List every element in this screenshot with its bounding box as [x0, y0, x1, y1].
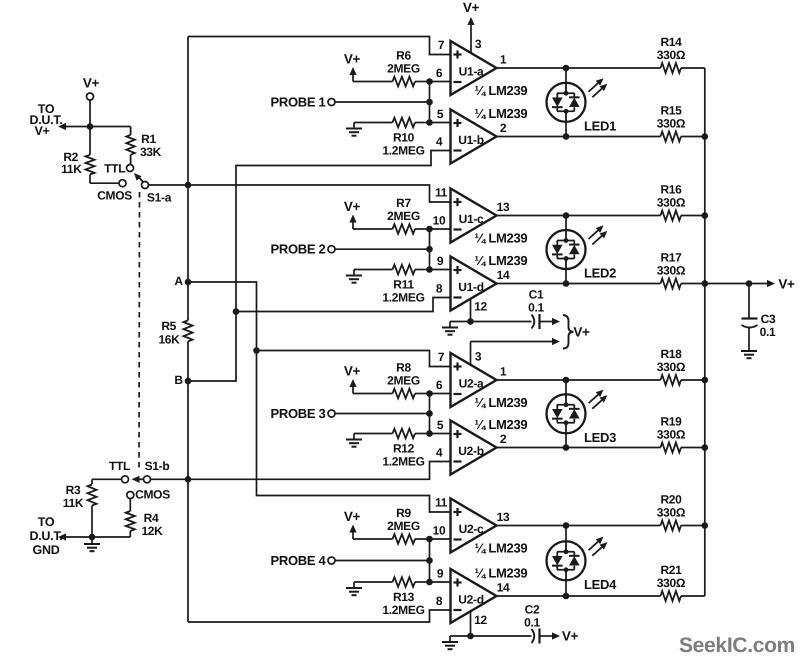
wire left bus upper segment: [187, 37, 189, 321]
svg-text:R17: R17: [660, 251, 682, 265]
capacitor C2 0.1: [524, 603, 552, 644]
resistor R4: [126, 511, 163, 538]
svg-text:TO: TO: [38, 515, 55, 529]
svg-text:2: 2: [500, 432, 507, 446]
label S1-b: [145, 459, 170, 473]
svg-text:7: 7: [438, 38, 445, 52]
svg-text:R10: R10: [393, 131, 415, 145]
svg-text:R7: R7: [396, 196, 411, 210]
svg-text:U2-a: U2-a: [459, 377, 484, 391]
wire U1-d output to right bus: [681, 283, 705, 285]
node U1-b plus junction: [426, 119, 433, 126]
svg-text:B: B: [174, 373, 183, 387]
svg-text:¼ LM239: ¼ LM239: [475, 253, 528, 268]
svg-text:U1-a: U1-a: [459, 65, 484, 79]
wire V+ output row: [705, 277, 795, 292]
power rail V+ (top left): [83, 76, 100, 127]
power V+ for R9: [344, 509, 361, 539]
resistor R6 2MEG: [353, 49, 430, 87]
input PROBE 1: [271, 95, 430, 110]
wire input junction column stage 3: [429, 394, 431, 434]
svg-text:1: 1: [500, 365, 507, 379]
svg-text:6: 6: [436, 66, 443, 80]
svg-text:330Ω: 330Ω: [657, 196, 686, 210]
svg-text:330Ω: 330Ω: [657, 428, 686, 442]
wire U2-d output row: [497, 595, 661, 597]
wire to U1-a minus input: [430, 81, 451, 83]
node TO D.U.T. V+ junction: [87, 123, 94, 130]
wire to U1-c minus input: [430, 228, 451, 230]
op-amp comparator U1-c: [433, 186, 528, 246]
svg-text:CMOS: CMOS: [135, 488, 170, 502]
svg-text:1.2MEG: 1.2MEG: [382, 144, 424, 158]
svg-text:U1-c: U1-c: [459, 212, 484, 226]
svg-text:R6: R6: [396, 49, 411, 63]
svg-text:330Ω: 330Ω: [657, 506, 686, 520]
resistor R1: [126, 127, 161, 165]
svg-text:33K: 33K: [140, 145, 162, 159]
resistor R17 330: [657, 251, 686, 289]
svg-text:¼ LM239: ¼ LM239: [475, 106, 528, 121]
svg-text:V+: V+: [34, 124, 49, 138]
LED LED2 (bicolor): [547, 212, 617, 287]
switch S1-b CMOS contact: [127, 492, 134, 499]
svg-text:R9: R9: [396, 506, 411, 520]
ground (R13): [346, 582, 362, 595]
svg-text:2: 2: [500, 121, 507, 135]
power V+ pin 3 of U1-a: [463, 0, 482, 53]
svg-text:PROBE 4: PROBE 4: [271, 553, 327, 568]
wire R4 to gnd rail: [66, 531, 130, 537]
node C2 junction: [467, 633, 474, 640]
resistor R12 1.2MEG: [354, 429, 430, 469]
svg-text:LED3: LED3: [584, 430, 616, 445]
node right bus at R20 row: [702, 522, 709, 529]
wire C3 to V+ row: [748, 284, 750, 318]
resistor R13 1.2MEG: [354, 577, 430, 617]
wire U1-b output to right bus: [681, 136, 705, 138]
label S1-a: [147, 191, 172, 205]
svg-text:GND: GND: [33, 543, 60, 557]
node S1-b junction on left bus: [185, 476, 192, 483]
resistor R15 330: [657, 104, 686, 142]
svg-text:4: 4: [436, 135, 443, 149]
svg-text:9: 9: [437, 567, 444, 581]
wire arrow TO D.U.T. GND: [58, 533, 66, 540]
svg-text:R14: R14: [660, 35, 682, 49]
wire U2-c output row: [497, 525, 661, 527]
svg-text:2MEG: 2MEG: [387, 209, 420, 223]
node U1-c minus junction: [426, 226, 433, 233]
svg-text:R8: R8: [396, 361, 411, 375]
svg-text:CMOS: CMOS: [97, 188, 132, 202]
svg-text:¼ LM239: ¼ LM239: [475, 395, 528, 410]
wire S1-a pole to left bus: [149, 184, 188, 186]
wire U1-d pin 12: [471, 299, 488, 322]
wire arrow C2 to V+: [552, 629, 579, 644]
svg-text:9: 9: [437, 254, 444, 268]
svg-text:8: 8: [436, 594, 443, 608]
wire U2-b output row: [497, 447, 661, 449]
wire U2-d pin 12: [471, 611, 488, 636]
switch S1-a pole: [142, 182, 149, 189]
node U2-b plus junction: [426, 430, 433, 437]
svg-text:1.2MEG: 1.2MEG: [382, 291, 424, 305]
node right bus at R18 row: [702, 377, 709, 384]
svg-text:6: 6: [436, 378, 443, 392]
svg-text:3: 3: [475, 37, 482, 51]
svg-text:R13: R13: [393, 590, 415, 604]
svg-text:3: 3: [475, 350, 482, 364]
svg-text:S1-b: S1-b: [145, 459, 170, 473]
wire to U1-d plus input: [430, 269, 451, 271]
resistor R19 330: [657, 415, 686, 453]
svg-text:0.1: 0.1: [524, 616, 540, 630]
input PROBE 3: [271, 406, 430, 421]
op-amp comparator U2-b: [436, 417, 528, 475]
svg-text:U2-d: U2-d: [458, 593, 483, 607]
svg-text:330Ω: 330Ω: [657, 48, 686, 62]
svg-text:¼ LM239: ¼ LM239: [475, 541, 528, 556]
svg-text:SeekIC.com: SeekIC.com: [679, 634, 795, 657]
wire S1-a row to U1-c pin 11: [188, 185, 451, 202]
node probe junction stage 2: [426, 246, 433, 253]
op-amp comparator U2-d: [436, 566, 528, 624]
ground (R10): [346, 123, 362, 136]
LED LED1 (bicolor): [547, 65, 617, 140]
label TTL (S1-a): [104, 161, 125, 175]
node C3 junction: [746, 280, 753, 287]
svg-text:LED1: LED1: [584, 118, 616, 133]
label TTL (S1-b): [109, 459, 130, 473]
svg-text:R19: R19: [660, 415, 682, 429]
svg-text:PROBE 1: PROBE 1: [271, 95, 326, 110]
wire left bus lower segment: [187, 341, 189, 622]
svg-text:LED4: LED4: [584, 577, 617, 592]
wire U2-d output to right bus: [681, 595, 705, 597]
resistor R16 330: [657, 183, 686, 221]
svg-text:8: 8: [436, 282, 443, 296]
svg-text:V+: V+: [344, 364, 361, 379]
wire U1-a output to right bus: [681, 67, 705, 69]
resistor R14 330: [657, 35, 686, 73]
node right bus at R17 row: [702, 280, 709, 287]
resistor R2: [61, 127, 94, 177]
svg-text:14: 14: [497, 581, 510, 595]
wire to U2-b plus input: [430, 433, 451, 435]
svg-text:PROBE 2: PROBE 2: [271, 242, 326, 257]
wire to U2-a minus input: [430, 393, 451, 395]
wire input junction column stage 4: [429, 539, 431, 582]
LED LED4 (bicolor): [547, 522, 618, 599]
svg-text:2MEG: 2MEG: [387, 374, 420, 388]
svg-text:7: 7: [438, 350, 445, 364]
svg-text:R16: R16: [660, 183, 682, 197]
wire right bus: [704, 68, 706, 596]
wire R2 to CMOS contact: [90, 174, 119, 183]
svg-text:R21: R21: [660, 563, 682, 577]
svg-text:TTL: TTL: [109, 459, 130, 473]
node probe junction stage 4: [426, 557, 433, 564]
svg-text:14: 14: [497, 268, 510, 282]
svg-text:V+: V+: [778, 277, 795, 292]
node S1-a junction on left bus: [185, 182, 192, 189]
svg-text:¼ LM239: ¼ LM239: [475, 417, 528, 432]
svg-text:5: 5: [437, 107, 444, 121]
node right bus at R15 row: [702, 133, 709, 140]
svg-text:V+: V+: [562, 629, 579, 644]
svg-text:V+: V+: [344, 509, 361, 524]
wire U2-a output to right bus: [681, 379, 705, 381]
svg-text:2MEG: 2MEG: [387, 62, 420, 76]
input PROBE 2: [271, 242, 430, 257]
svg-text:V+: V+: [573, 324, 590, 339]
node U1-a minus junction: [426, 78, 433, 85]
svg-text:0.1: 0.1: [760, 325, 776, 339]
ground (D.U.T. GND): [84, 537, 100, 551]
resistor R8 2MEG: [353, 361, 430, 399]
wire gnd to C2: [450, 635, 532, 637]
svg-text:10: 10: [433, 214, 446, 228]
node probe junction stage 3: [426, 410, 433, 417]
switch S1-a TTL contact: [127, 165, 134, 172]
svg-text:U2-c: U2-c: [459, 522, 484, 536]
svg-text:11K: 11K: [63, 496, 84, 510]
label TO D.U.T. GND: [30, 515, 63, 557]
op-amp comparator U2-c: [433, 496, 528, 556]
wire to U1-b plus input: [430, 122, 451, 124]
svg-text:LED2: LED2: [584, 266, 616, 281]
node U2-c minus junction: [426, 536, 433, 543]
svg-text:16K: 16K: [158, 333, 180, 347]
svg-text:12: 12: [474, 613, 487, 627]
ground (C3): [741, 349, 757, 358]
svg-text:12K: 12K: [141, 524, 163, 538]
node A: [174, 274, 191, 288]
svg-text:11: 11: [435, 496, 448, 510]
resistor R20 330: [657, 493, 686, 531]
svg-text:R12: R12: [393, 442, 415, 456]
wire to U2-c minus input: [430, 538, 451, 540]
capacitor C3 0.1: [742, 312, 777, 349]
resistor R18 330: [657, 347, 686, 385]
op-amp comparator U1-d: [436, 253, 528, 311]
wire CMOS contact to R4: [129, 499, 131, 511]
svg-text:R20: R20: [660, 493, 682, 507]
LED LED3 (bicolor): [547, 377, 617, 451]
node U2-d plus junction: [426, 579, 433, 586]
svg-text:4: 4: [436, 446, 443, 460]
brace V+ supply: [563, 315, 590, 349]
wire B branch to U1-d pin 8: [236, 298, 451, 312]
svg-text:330Ω: 330Ω: [657, 576, 686, 590]
resistor R9 2MEG: [353, 506, 430, 544]
switch S1-a CMOS contact: [119, 180, 126, 187]
wire U2-a pin 3 to V+: [471, 338, 561, 365]
svg-text:R15: R15: [660, 104, 682, 118]
wire V+ node to R1: [90, 126, 131, 128]
node U1-d plus junction: [426, 266, 433, 273]
wire node B branch to U1-b pin 4: [188, 151, 451, 382]
svg-text:C2: C2: [525, 603, 540, 617]
ground (R11): [346, 270, 362, 283]
svg-text:R1: R1: [141, 132, 156, 146]
svg-text:V+: V+: [344, 199, 361, 214]
op-amp comparator U1-b: [436, 106, 528, 164]
svg-text:R5: R5: [161, 319, 176, 333]
wire A branch to U2-c pin 11: [257, 351, 451, 513]
wire U1-b output row: [497, 136, 661, 138]
svg-text:D.U.T.: D.U.T.: [30, 529, 63, 543]
svg-text:¼ LM239: ¼ LM239: [475, 566, 528, 581]
node B: [174, 373, 191, 387]
wire node A branch: [188, 282, 257, 351]
svg-text:R4: R4: [144, 511, 159, 525]
switch S1-b arm arrow: [132, 476, 144, 483]
wire arrow C1 to V+: [552, 318, 560, 325]
resistor R21 330: [657, 563, 686, 601]
wire input junction column stage 1: [429, 82, 431, 123]
svg-text:13: 13: [497, 200, 510, 214]
label CMOS (S1-b): [135, 488, 170, 502]
svg-text:A: A: [174, 274, 183, 288]
svg-text:10: 10: [433, 524, 446, 538]
ground (R12): [346, 434, 362, 447]
resistor R11 1.2MEG: [354, 265, 430, 305]
svg-text:11K: 11K: [61, 162, 82, 176]
power V+ for R8: [344, 364, 361, 394]
wire bottom bus to U2-d pin 8: [188, 610, 451, 622]
svg-text:¼ LM239: ¼ LM239: [475, 83, 528, 98]
op-amp comparator U2-a: [436, 350, 528, 410]
svg-text:V+: V+: [463, 0, 480, 15]
wire U2-c output to right bus: [681, 525, 705, 527]
op-amp comparator U1-a: [436, 38, 528, 98]
power V+ for R6: [344, 52, 361, 82]
wire U1-c output row: [497, 215, 661, 217]
wire input junction column stage 2: [429, 229, 431, 270]
node probe junction stage 1: [426, 99, 433, 106]
resistor R3: [63, 483, 97, 537]
node right bus at R19 row: [702, 444, 709, 451]
node right bus at R16 row: [702, 212, 709, 219]
wire gnd to C1: [450, 321, 532, 323]
svg-text:TTL: TTL: [104, 161, 125, 175]
svg-text:12: 12: [474, 300, 487, 314]
svg-text:PROBE 3: PROBE 3: [271, 406, 326, 421]
svg-text:V+: V+: [83, 76, 100, 91]
svg-text:C1: C1: [529, 288, 544, 302]
wire S1-b row to U2-b pin 4: [188, 462, 451, 480]
svg-text:U1-d: U1-d: [458, 280, 483, 294]
node A-branch junction: [253, 347, 260, 354]
svg-text:330Ω: 330Ω: [657, 264, 686, 278]
svg-text:5: 5: [437, 418, 444, 432]
switch S1-b TTL contact: [122, 476, 129, 483]
svg-text:1: 1: [500, 53, 507, 67]
node U2-a minus junction: [426, 390, 433, 397]
svg-text:C3: C3: [761, 312, 776, 326]
node B-branch junction: [233, 308, 240, 315]
watermark SeekIC.com: [679, 634, 795, 657]
svg-text:2MEG: 2MEG: [387, 519, 420, 533]
wire arrow TO D.U.T. V+: [58, 123, 90, 130]
svg-text:0.1: 0.1: [528, 301, 544, 315]
node C1 junction: [467, 318, 474, 325]
svg-text:330Ω: 330Ω: [657, 360, 686, 374]
mechanical link dashed S1-a to S1-b: [138, 192, 141, 471]
svg-text:S1-a: S1-a: [147, 191, 172, 205]
label CMOS (S1-a): [97, 188, 132, 202]
ground (U2-d pin 12): [442, 636, 458, 649]
power V+ for R7: [344, 199, 361, 229]
wire TTL contact to R3: [92, 479, 121, 484]
switch S1-b pole: [144, 476, 151, 483]
wire U2-a output row: [497, 379, 661, 381]
svg-text:1.2MEG: 1.2MEG: [382, 603, 424, 617]
wire U1-a output row: [497, 67, 661, 69]
svg-text:V+: V+: [344, 52, 361, 67]
switch S1-a arm: [134, 173, 144, 182]
wire A branch to U2-a pin 7: [257, 351, 451, 367]
svg-text:330Ω: 330Ω: [657, 117, 686, 131]
svg-text:R18: R18: [660, 347, 682, 361]
svg-text:U1-b: U1-b: [458, 133, 483, 147]
wire U2-b output to right bus: [681, 447, 705, 449]
svg-text:R3: R3: [66, 483, 81, 497]
svg-text:¼ LM239: ¼ LM239: [475, 231, 528, 246]
ground (U1-d pin 12): [442, 322, 458, 335]
svg-text:1.2MEG: 1.2MEG: [382, 455, 424, 469]
resistor R5: [158, 319, 192, 346]
svg-text:U2-b: U2-b: [458, 444, 483, 458]
wire to U2-d plus input: [430, 581, 451, 583]
wire U1-c output to right bus: [681, 215, 705, 217]
wire top bus to U1-a pin 7: [188, 37, 451, 55]
capacitor C1 0.1: [528, 288, 552, 330]
svg-text:R11: R11: [393, 278, 414, 292]
svg-text:13: 13: [497, 510, 510, 524]
wire S1-b pole to left bus: [151, 478, 188, 480]
svg-text:11: 11: [435, 186, 448, 200]
label TO D.U.T. V+: [30, 102, 63, 138]
wire U1-d output row: [497, 283, 661, 285]
input PROBE 4: [271, 553, 430, 568]
resistor R10 1.2MEG: [354, 118, 430, 158]
resistor R7 2MEG: [353, 196, 430, 234]
node TO D.U.T. GND junction: [89, 534, 96, 541]
